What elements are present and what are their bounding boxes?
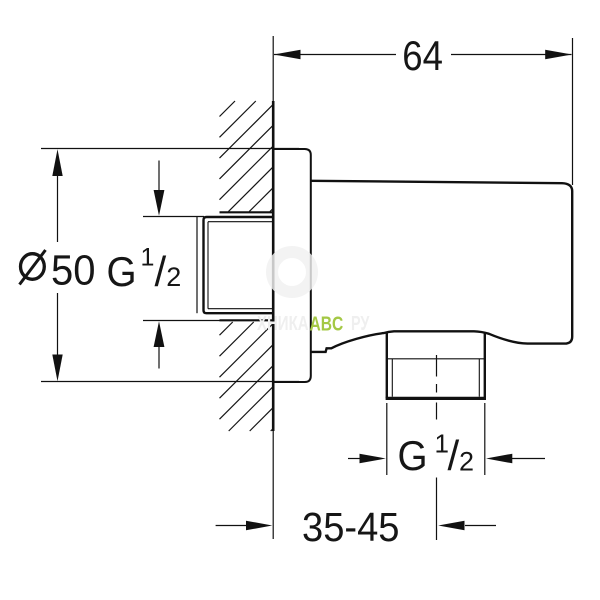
inlet thread root lines (208, 222, 274, 309)
dim D50: bottom extension line (41, 381, 299, 383)
watermark ring (272, 252, 312, 292)
dim D50: top arrowhead (52, 149, 62, 176)
svg-text:50: 50 (51, 245, 95, 294)
body outline (housing, bottom hump over outlet) (311, 181, 572, 352)
dim 35-45: left line and arrowhead at wall (216, 525, 246, 527)
dim G1/2 outlet: right extension line (484, 403, 486, 475)
outlet bottom edge (thick) (386, 397, 486, 400)
svg-text:35-45: 35-45 (302, 505, 399, 551)
wall line thin upper extension (64 dim) (272, 36, 274, 101)
wall niche bottom edge (220, 319, 275, 321)
svg-text:2: 2 (459, 447, 474, 477)
svg-text:G: G (398, 431, 428, 479)
dim D50: dimension line (57, 175, 59, 356)
dim D50: diameter symbol (20, 250, 46, 285)
dim D50: top extension line (41, 148, 299, 150)
dim G1/2 inlet: upper arrow (158, 161, 160, 194)
dim 64: right arrowhead (545, 50, 572, 60)
dim 64: left arrowhead (274, 50, 301, 60)
flange (wall rosette) (273, 149, 311, 382)
svg-text:ABC: ABC (310, 313, 344, 335)
dim G1/2 outlet: left extension line (386, 403, 388, 475)
wall line (thick centre part) (272, 101, 275, 431)
svg-text:/: / (155, 248, 167, 295)
wall line thin lower extension (35-45 dim) (272, 431, 274, 539)
dim 64: dimension line (274, 54, 572, 56)
wall hatch upper block (220, 101, 274, 212)
svg-text:ХНИКА: ХНИКА (257, 312, 309, 335)
inlet union square body (204, 217, 275, 313)
dim G1/2 inlet: lower arrow (158, 346, 160, 369)
dim D50: bottom arrowhead (52, 355, 62, 382)
dim 64: right extension line (572, 38, 574, 185)
outlet side edges (387, 332, 485, 399)
svg-text:64: 64 (402, 33, 443, 80)
dim G1/2 outlet: right arrow (511, 458, 545, 460)
inlet thread crest line (196, 217, 198, 313)
outlet thread start line (387, 358, 485, 360)
svg-text:1: 1 (141, 244, 155, 272)
dim G1/2 inlet: text (107, 244, 182, 296)
outlet thread root lines (392, 359, 479, 397)
dim G1/2 inlet: lower extension line (143, 320, 220, 322)
wall hatch lower block (220, 322, 274, 431)
outlet centre line (dash-dot) (436, 355, 438, 540)
svg-text:G: G (107, 247, 137, 295)
svg-text:/: / (448, 432, 460, 479)
dim G1/2 inlet: upper extension line (143, 216, 204, 218)
wall niche top edge (220, 211, 275, 213)
dim G1/2 outlet: left arrow (348, 458, 361, 460)
svg-text:2: 2 (166, 262, 181, 292)
dim 35-45: right line and arrowhead at centre line (465, 525, 496, 527)
dim G1/2 outlet: text (398, 428, 475, 479)
svg-text:РУ: РУ (351, 312, 369, 335)
